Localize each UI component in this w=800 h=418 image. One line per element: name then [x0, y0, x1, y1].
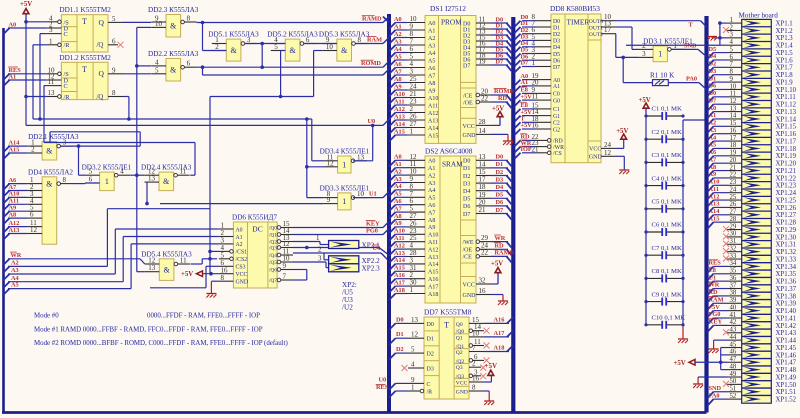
svg-text:VCC: VCC	[236, 272, 248, 278]
svg-text:/Q1: /Q1	[269, 233, 277, 239]
svg-text:Q: Q	[99, 69, 105, 78]
svg-text:A5: A5	[709, 142, 717, 149]
svg-text:RD: RD	[495, 243, 505, 250]
svg-text:2: 2	[215, 43, 219, 51]
svg-text:OUT0: OUT0	[589, 19, 603, 25]
svg-text:&: &	[163, 177, 170, 186]
svg-text:34: 34	[730, 260, 737, 267]
svg-text:41: 41	[730, 312, 737, 319]
svg-text:6: 6	[89, 176, 93, 184]
svg-text:1: 1	[410, 128, 414, 136]
svg-text:KEY: KEY	[366, 220, 380, 227]
svg-text:A8: A8	[428, 81, 435, 87]
svg-text:XP1.29: XP1.29	[776, 227, 797, 234]
svg-text:A12: A12	[428, 111, 438, 117]
svg-text:A10: A10	[428, 233, 438, 239]
svg-text:A14: A14	[394, 257, 406, 264]
svg-text:C2 0,1 MK: C2 0,1 MK	[652, 129, 682, 136]
svg-text:A13: A13	[709, 201, 720, 208]
svg-text:C3 0,1 MK: C3 0,1 MK	[652, 152, 682, 159]
svg-text:12: 12	[604, 149, 612, 157]
svg-text:/R: /R	[64, 94, 71, 101]
svg-text:GND: GND	[463, 293, 477, 299]
svg-text:XP1.7: XP1.7	[776, 65, 794, 72]
svg-text:U1: U1	[369, 190, 377, 197]
svg-text:A8: A8	[394, 213, 402, 220]
svg-text:XP1.50: XP1.50	[776, 382, 797, 389]
svg-text:A15: A15	[428, 133, 438, 139]
svg-text:8: 8	[221, 274, 225, 282]
svg-text:XP1.41: XP1.41	[776, 315, 797, 322]
svg-text:D0: D0	[396, 316, 404, 323]
svg-text:XP1.23: XP1.23	[776, 183, 797, 190]
svg-text:D7: D7	[496, 58, 504, 65]
svg-text:6: 6	[306, 36, 310, 44]
svg-text:A1: A1	[428, 28, 435, 34]
svg-text:3: 3	[49, 26, 53, 34]
svg-text:XP1.42: XP1.42	[776, 323, 797, 330]
svg-text:A2: A2	[236, 242, 243, 248]
svg-text:4: 4	[411, 361, 415, 369]
svg-text:/Q: /Q	[97, 42, 104, 49]
svg-text:16: 16	[730, 127, 737, 134]
svg-text:IOP: IOP	[521, 146, 532, 153]
svg-text:13: 13	[730, 105, 737, 112]
svg-text:A6: A6	[394, 61, 402, 68]
svg-text:9: 9	[283, 262, 287, 270]
svg-text:Mode #2 ROMD 0000...BFBF - ROM: Mode #2 ROMD 0000...BFBF - ROMD, C000...…	[34, 340, 288, 347]
svg-text:48: 48	[730, 363, 737, 370]
svg-text:A1: A1	[553, 84, 560, 90]
svg-text:OUT2: OUT2	[589, 32, 603, 38]
svg-text:GND: GND	[589, 155, 603, 161]
svg-text:PA0: PA0	[686, 76, 697, 83]
svg-text:/RD: /RD	[553, 139, 563, 145]
svg-text:A1: A1	[394, 23, 402, 30]
svg-text:15: 15	[730, 120, 737, 127]
svg-text:A6: A6	[394, 198, 402, 205]
svg-text:33: 33	[730, 253, 737, 260]
svg-text:XP1.52: XP1.52	[776, 397, 797, 404]
svg-text:XP1.44: XP1.44	[776, 338, 797, 345]
svg-text:A9: A9	[428, 225, 435, 231]
svg-text:PROM: PROM	[441, 18, 462, 27]
svg-text:PG0: PG0	[366, 227, 378, 234]
svg-text:GND: GND	[236, 280, 249, 286]
svg-text:T: T	[82, 65, 87, 74]
svg-text:9: 9	[730, 76, 734, 83]
svg-text:6: 6	[187, 60, 191, 68]
svg-text:18: 18	[730, 142, 737, 149]
svg-text:49: 49	[730, 371, 737, 378]
svg-text:A5: A5	[428, 58, 435, 64]
svg-text:13: 13	[357, 153, 365, 161]
svg-text:XP1.36: XP1.36	[776, 279, 797, 286]
svg-text:6: 6	[30, 211, 34, 219]
svg-text:C0: C0	[553, 92, 560, 98]
svg-text:A7: A7	[428, 210, 435, 216]
svg-text:8: 8	[730, 69, 734, 76]
svg-text:C10 0,1 MK: C10 0,1 MK	[652, 315, 686, 322]
svg-text:+5V: +5V	[616, 128, 628, 135]
svg-text:A14: A14	[709, 208, 721, 215]
svg-text:A17: A17	[428, 284, 438, 290]
svg-text:4: 4	[155, 58, 159, 66]
svg-text:A2: A2	[394, 168, 402, 175]
svg-text:27: 27	[730, 209, 737, 216]
svg-text:/Q: /Q	[97, 94, 104, 101]
svg-text:A15: A15	[428, 270, 438, 276]
svg-text:/R: /R	[64, 42, 71, 49]
svg-text:1: 1	[342, 197, 346, 206]
svg-text:A4: A4	[394, 46, 403, 53]
svg-text:ROMD: ROMD	[361, 60, 381, 67]
svg-text:D2: D2	[463, 174, 470, 180]
svg-text:XP2.3: XP2.3	[362, 265, 381, 273]
svg-text:1: 1	[49, 37, 53, 45]
svg-text:/Q5: /Q5	[269, 260, 277, 266]
svg-text:A0: A0	[553, 78, 560, 84]
svg-text:D6: D6	[709, 83, 717, 90]
svg-text:D3: D3	[427, 367, 434, 373]
svg-text:16: 16	[472, 375, 480, 383]
svg-text:3: 3	[730, 32, 734, 39]
svg-text:A11: A11	[709, 186, 720, 193]
svg-text:SRAM: SRAM	[442, 160, 463, 169]
svg-text:7: 7	[730, 61, 734, 68]
svg-text:D6: D6	[496, 199, 504, 206]
svg-text:/Q0: /Q0	[456, 329, 465, 335]
svg-text:2: 2	[31, 146, 35, 154]
svg-text:19: 19	[479, 58, 487, 66]
svg-text:4: 4	[120, 168, 124, 176]
svg-text:A8: A8	[709, 164, 717, 171]
svg-text:VCC: VCC	[456, 380, 468, 386]
svg-text:C: C	[427, 382, 431, 388]
svg-text:45: 45	[730, 341, 737, 348]
svg-text:A1: A1	[394, 161, 402, 168]
svg-text:36: 36	[730, 275, 737, 282]
svg-text:XP1.31: XP1.31	[776, 242, 797, 249]
svg-text:42: 42	[730, 319, 737, 326]
svg-text:12: 12	[411, 331, 419, 339]
svg-text:U0: U0	[379, 377, 387, 384]
svg-text:32: 32	[479, 276, 487, 284]
svg-text:XP1.51: XP1.51	[776, 389, 797, 396]
svg-text:XP1.21: XP1.21	[776, 168, 797, 175]
svg-text:+5V: +5V	[20, 1, 32, 8]
svg-text:D0: D0	[463, 159, 470, 165]
svg-text:/Q6: /Q6	[269, 268, 277, 274]
svg-text:XP1.48: XP1.48	[776, 367, 797, 374]
svg-text:XP1.25: XP1.25	[776, 197, 797, 204]
svg-text:12: 12	[30, 226, 38, 234]
svg-text:A15: A15	[394, 128, 405, 135]
svg-text:SND: SND	[684, 43, 697, 50]
svg-text:1: 1	[658, 50, 662, 59]
svg-text:1: 1	[730, 17, 733, 24]
svg-text:16: 16	[479, 287, 487, 295]
svg-text:D0: D0	[553, 19, 560, 25]
svg-text:+5V: +5V	[521, 93, 533, 100]
svg-text:2: 2	[642, 42, 646, 50]
svg-text:A0: A0	[9, 21, 17, 28]
svg-text:A13: A13	[428, 255, 438, 261]
svg-text:RAMD: RAMD	[362, 16, 382, 23]
svg-text:OUT1: OUT1	[589, 25, 603, 31]
svg-text:XP1.38: XP1.38	[776, 293, 797, 300]
svg-text:A17: A17	[394, 279, 405, 286]
svg-text:A11: A11	[394, 98, 405, 105]
svg-text:D7: D7	[709, 97, 717, 104]
svg-text:23: 23	[730, 179, 737, 186]
svg-text:/WR: /WR	[553, 145, 564, 151]
svg-text:XP1.45: XP1.45	[776, 345, 797, 352]
svg-text:XP1.24: XP1.24	[776, 190, 797, 197]
svg-text:A13: A13	[394, 113, 405, 120]
svg-text:39: 39	[730, 297, 737, 304]
svg-text:10: 10	[326, 43, 334, 51]
svg-text:/U2: /U2	[342, 304, 353, 312]
svg-text:Q0: Q0	[456, 322, 463, 328]
svg-text:22: 22	[481, 94, 489, 102]
svg-text:XP1.28: XP1.28	[776, 220, 797, 227]
svg-text:Q2: Q2	[456, 350, 463, 356]
svg-text:XP1.9: XP1.9	[776, 79, 794, 86]
svg-text:DD1.1 K555TM2: DD1.1 K555TM2	[59, 6, 111, 14]
svg-text:+5V: +5V	[674, 360, 686, 367]
svg-text:D1: D1	[553, 25, 560, 31]
svg-text:DS2 AS6C4008: DS2 AS6C4008	[425, 147, 473, 156]
svg-text:/CS: /CS	[553, 151, 562, 157]
svg-text:28: 28	[479, 118, 487, 126]
svg-text:A10: A10	[428, 96, 438, 102]
svg-text:D4: D4	[496, 184, 505, 191]
svg-text:32: 32	[730, 245, 737, 252]
svg-text:D7: D7	[553, 65, 560, 71]
svg-text:VCC: VCC	[463, 124, 475, 130]
svg-text:A17: A17	[494, 330, 505, 337]
svg-text:C5 0,1 MK: C5 0,1 MK	[652, 199, 682, 206]
svg-text:D4: D4	[463, 189, 470, 195]
svg-text:1: 1	[532, 59, 536, 67]
svg-text:D0: D0	[496, 154, 504, 161]
svg-text:21: 21	[479, 206, 487, 214]
svg-text:8: 8	[187, 15, 191, 23]
svg-text:PG0: PG0	[709, 311, 721, 318]
svg-text:43: 43	[730, 327, 737, 334]
svg-text:DD2.3 К555ЛА3: DD2.3 К555ЛА3	[148, 6, 199, 14]
svg-text:XP1.8: XP1.8	[776, 72, 794, 79]
svg-text:C6 0,1 MK: C6 0,1 MK	[652, 222, 682, 229]
svg-text:/Q4: /Q4	[269, 253, 277, 259]
svg-text:5: 5	[89, 168, 93, 176]
svg-text:16: 16	[532, 122, 540, 130]
svg-text:A9: A9	[428, 88, 435, 94]
svg-text:U0: U0	[368, 118, 376, 125]
svg-text:5: 5	[112, 15, 116, 23]
svg-text:A4: A4	[428, 51, 435, 57]
svg-text:/Q3: /Q3	[456, 374, 465, 380]
svg-text:46: 46	[730, 349, 737, 356]
svg-text:DS1 I27512: DS1 I27512	[430, 4, 466, 13]
svg-text:C8 0,1 MK: C8 0,1 MK	[652, 268, 682, 275]
svg-text:8: 8	[358, 36, 362, 44]
svg-text:/Q0: /Q0	[269, 226, 277, 232]
svg-text:XP1.33: XP1.33	[776, 256, 797, 263]
svg-text:A1: A1	[428, 166, 435, 172]
svg-text:A3: A3	[394, 38, 402, 45]
svg-text:A13: A13	[428, 118, 438, 124]
svg-text:50: 50	[730, 378, 737, 385]
svg-text:A11: A11	[428, 240, 438, 246]
svg-text:5: 5	[411, 346, 415, 354]
svg-text:1: 1	[410, 286, 414, 294]
svg-text:14: 14	[479, 127, 487, 135]
svg-text:XP1.34: XP1.34	[776, 264, 797, 271]
svg-text:2: 2	[472, 360, 476, 368]
svg-text:9: 9	[112, 66, 116, 74]
svg-text:ROMD: ROMD	[494, 88, 514, 95]
svg-text:XP1.3: XP1.3	[776, 35, 794, 42]
svg-text:XP1.17: XP1.17	[776, 138, 797, 145]
svg-text:A5: A5	[11, 282, 19, 289]
svg-text:XP1.11: XP1.11	[776, 94, 796, 101]
svg-text:6: 6	[112, 37, 116, 45]
svg-text:Mother board: Mother board	[739, 12, 779, 20]
svg-text:A12: A12	[394, 242, 405, 249]
svg-text:A9: A9	[394, 83, 402, 90]
svg-text:51: 51	[730, 386, 737, 393]
svg-text:D7: D7	[521, 60, 529, 67]
svg-text:4: 4	[730, 39, 734, 46]
svg-text:A3: A3	[709, 127, 717, 134]
svg-text:D0: D0	[709, 90, 717, 97]
svg-text:T: T	[444, 321, 449, 330]
svg-text:3: 3	[247, 36, 251, 44]
svg-text:26: 26	[730, 201, 737, 208]
svg-text:5: 5	[730, 46, 734, 53]
svg-text:A16: A16	[494, 316, 505, 323]
svg-text:+5V: +5V	[491, 261, 503, 268]
svg-text:D4: D4	[553, 45, 560, 51]
svg-text:G2: G2	[553, 127, 560, 133]
svg-text:C4 0,1 MK: C4 0,1 MK	[652, 175, 682, 182]
svg-text:G0: G0	[553, 98, 560, 104]
svg-text:A7: A7	[394, 205, 402, 212]
svg-text:A0: A0	[394, 154, 402, 161]
svg-text:D5: D5	[553, 52, 560, 58]
svg-text:D5: D5	[496, 192, 504, 199]
svg-text:D2: D2	[709, 61, 717, 68]
svg-text:A7: A7	[394, 68, 402, 75]
svg-text:Q3: Q3	[456, 365, 463, 371]
svg-text:12: 12	[327, 159, 335, 167]
svg-text:CS3: CS3	[236, 265, 246, 271]
svg-text:10: 10	[730, 83, 737, 90]
svg-text:A13: A13	[9, 227, 20, 234]
svg-text:A16: A16	[428, 277, 438, 283]
svg-text:C9 0,1 MK: C9 0,1 MK	[652, 291, 682, 298]
svg-text:A0: A0	[428, 159, 435, 165]
svg-text:A8: A8	[9, 211, 17, 218]
svg-text:C: C	[64, 31, 68, 38]
svg-text:A2: A2	[394, 31, 402, 38]
svg-text:2: 2	[730, 24, 734, 31]
svg-text:E8: E8	[709, 267, 716, 274]
svg-text:VCC: VCC	[463, 282, 475, 288]
svg-text:A10: A10	[709, 179, 720, 186]
svg-text:13: 13	[48, 89, 56, 97]
svg-text:XP1.37: XP1.37	[776, 286, 797, 293]
svg-text:&: &	[46, 180, 53, 189]
svg-text:A3: A3	[394, 176, 402, 183]
svg-text:A16: A16	[394, 272, 405, 279]
svg-text:A1: A1	[521, 79, 529, 86]
svg-text:24: 24	[730, 186, 737, 193]
svg-text:XP1.47: XP1.47	[776, 360, 797, 367]
svg-text:A0: A0	[236, 227, 243, 233]
svg-text:XP1.15: XP1.15	[776, 124, 797, 131]
svg-text:D3: D3	[463, 181, 470, 187]
svg-text:A9: A9	[709, 171, 717, 178]
svg-text:XP1.6: XP1.6	[776, 57, 794, 64]
svg-text:XP1.1: XP1.1	[776, 21, 793, 28]
svg-text:6: 6	[730, 54, 734, 61]
svg-text:5: 5	[274, 43, 278, 51]
svg-text:11: 11	[474, 338, 481, 346]
svg-text:+5V: +5V	[521, 122, 533, 129]
svg-text:/CE: /CE	[463, 255, 473, 261]
svg-text:A6: A6	[428, 203, 435, 209]
svg-text:A3: A3	[11, 267, 19, 274]
svg-text:A18: A18	[428, 292, 438, 298]
svg-text:A1: A1	[9, 73, 17, 80]
svg-text:XP1.19: XP1.19	[776, 153, 797, 160]
svg-text:1: 1	[105, 177, 109, 186]
svg-text:1: 1	[342, 160, 346, 169]
svg-text:24: 24	[604, 141, 612, 149]
svg-text:RD: RD	[498, 95, 508, 102]
svg-text:DD2.1 К555ЛА3: DD2.1 К555ЛА3	[28, 133, 79, 141]
svg-text:XP1.49: XP1.49	[776, 374, 797, 381]
svg-text:25: 25	[730, 194, 737, 201]
svg-text:&: &	[341, 46, 348, 55]
svg-text:R1 10 K: R1 10 K	[650, 72, 675, 80]
svg-text:DC: DC	[252, 225, 262, 234]
svg-text:&: &	[46, 147, 53, 156]
svg-text:A4: A4	[394, 183, 403, 190]
svg-text:G1: G1	[553, 114, 560, 120]
svg-text:A14: A14	[394, 121, 406, 128]
svg-text:DD2.2 К555ЛА3: DD2.2 К555ЛА3	[148, 50, 199, 58]
svg-text:A5: A5	[394, 191, 402, 198]
svg-text:DD1.2 K555TM2: DD1.2 K555TM2	[59, 54, 111, 62]
svg-text:D7: D7	[463, 63, 470, 69]
svg-text:RD: RD	[709, 289, 719, 296]
svg-text:WR: WR	[709, 282, 720, 289]
svg-text:C1 0,1 MK: C1 0,1 MK	[652, 106, 682, 113]
svg-text:A0: A0	[394, 16, 402, 23]
svg-text:37: 37	[730, 282, 737, 289]
svg-text:3: 3	[318, 254, 322, 262]
svg-text:21: 21	[532, 145, 540, 153]
svg-text:D1: D1	[496, 161, 504, 168]
svg-text:1: 1	[673, 42, 677, 50]
svg-text:/CS1: /CS1	[236, 250, 248, 256]
svg-text:D2: D2	[396, 346, 404, 353]
svg-text:XP1.4: XP1.4	[776, 43, 794, 50]
